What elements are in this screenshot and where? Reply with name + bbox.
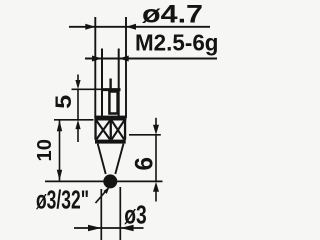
svg-text:M2.5-6g: M2.5-6g <box>135 30 219 56</box>
extension line 6-top <box>129 134 161 136</box>
ball tip <box>103 174 117 188</box>
dimension line ø3 <box>74 225 144 231</box>
extension line ø3 left <box>100 189 102 240</box>
dimension line 10 <box>57 120 62 181</box>
dimension line ø4.7 <box>69 24 210 30</box>
extension line bottom (10/6 shared) <box>45 180 163 182</box>
dimension line 6 <box>153 118 159 202</box>
extension line ø3 right <box>119 187 121 240</box>
svg-text:ø3/32": ø3/32" <box>36 184 89 214</box>
extension line left (ø4.7 / body edge) <box>94 17 96 118</box>
stem left edge (M2.5 thread) <box>101 49 103 117</box>
knurl top band <box>94 116 126 121</box>
thread center stub <box>109 79 111 90</box>
knurl cell borders <box>94 120 126 139</box>
cone right edge <box>115 144 123 174</box>
cone left edge <box>98 144 106 174</box>
thread shoulder bar <box>102 88 121 91</box>
knurl cross left <box>96 121 110 140</box>
extension line right (ø4.7 / body edge) <box>125 17 127 118</box>
svg-text:ø4.7: ø4.7 <box>142 0 203 28</box>
stem right edge (M2.5 thread) <box>118 49 120 117</box>
svg-text:5: 5 <box>51 95 76 109</box>
dimension line M2.5-6g <box>85 56 217 62</box>
dimension line 5 <box>75 75 80 143</box>
svg-text:6: 6 <box>131 157 159 171</box>
knurl cross right <box>112 121 125 140</box>
thread inner rectangle <box>109 92 117 114</box>
svg-text:ø3: ø3 <box>124 199 147 229</box>
knurl bottom band <box>95 140 126 144</box>
extension line 5-top <box>72 88 108 90</box>
extension line 5-bottom / 10-top <box>54 119 94 121</box>
svg-text:10: 10 <box>33 139 56 162</box>
leader ø3/32 <box>96 187 110 203</box>
